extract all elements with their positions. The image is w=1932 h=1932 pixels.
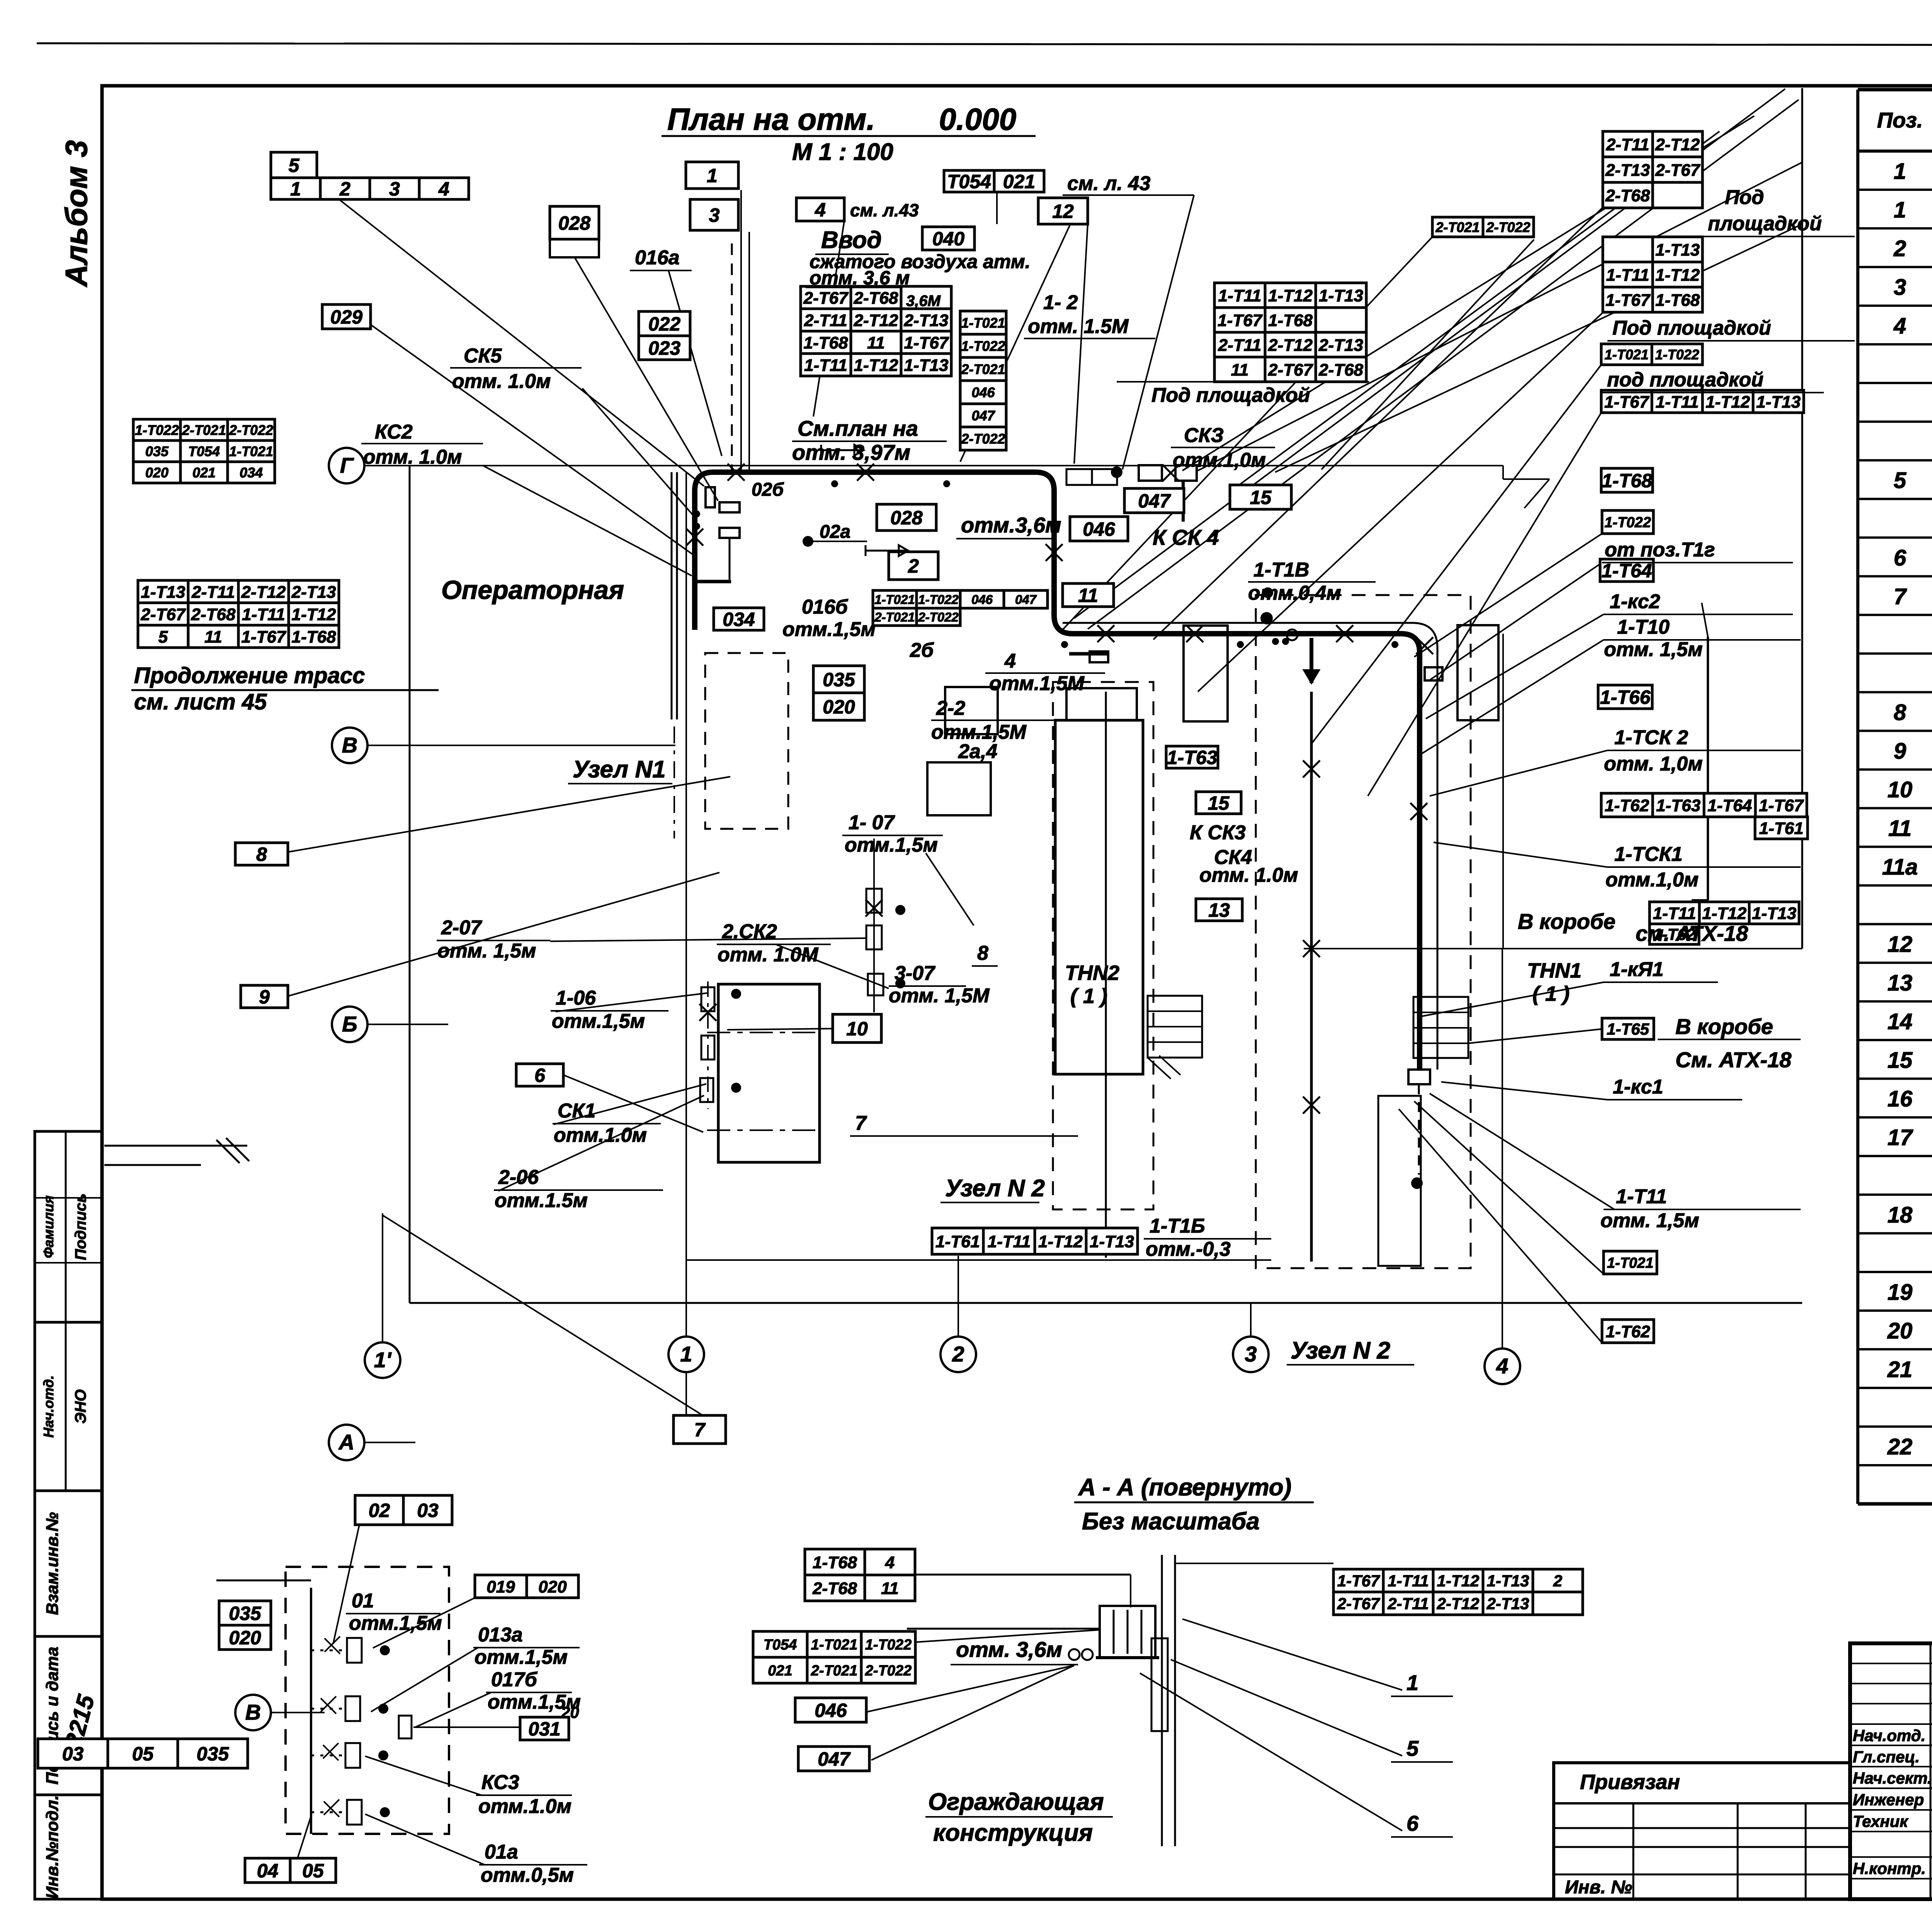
svg-text:2-Т021: 2-Т021 (811, 1663, 857, 1679)
svg-text:046: 046 (1083, 519, 1116, 540)
svg-text:11: 11 (1078, 585, 1098, 606)
svg-text:4: 4 (1004, 650, 1016, 672)
svg-text:2-Т68: 2-Т68 (191, 605, 236, 624)
svg-text:20: 20 (1887, 1318, 1913, 1344)
svg-text:1: 1 (1894, 159, 1906, 184)
svg-text:22: 22 (1887, 1434, 1913, 1459)
svg-text:отм. 3,6м: отм. 3,6м (956, 1637, 1062, 1662)
svg-text:отм. 1.0м: отм. 1.0м (452, 370, 551, 393)
svg-text:отм.1.5м: отм.1.5м (495, 1189, 588, 1212)
svg-text:11: 11 (204, 628, 222, 646)
svg-text:13: 13 (1208, 900, 1230, 921)
svg-text:Поз.: Поз. (1877, 108, 1923, 132)
svg-text:СК1: СК1 (558, 1100, 595, 1122)
svg-text:Взам.инв.№: Взам.инв.№ (43, 1512, 62, 1615)
svg-text:1: 1 (1894, 197, 1906, 223)
svg-text:1-Т022: 1-Т022 (1655, 347, 1699, 362)
svg-text:1-Т68: 1-Т68 (804, 333, 848, 352)
svg-text:2-Т11: 2-Т11 (804, 311, 847, 330)
svg-text:046: 046 (971, 592, 993, 607)
svg-text:М 1 : 100: М 1 : 100 (792, 139, 893, 165)
svg-text:1-Т68: 1-Т68 (1268, 311, 1313, 330)
svg-text:1-Т12: 1-Т12 (1702, 904, 1747, 923)
svg-text:1-Т12: 1-Т12 (1706, 393, 1750, 412)
svg-text:035: 035 (145, 443, 169, 459)
svg-text:2-06: 2-06 (498, 1166, 539, 1189)
svg-text:1-Т67: 1-Т67 (1337, 1572, 1380, 1590)
svg-text:1-Т021: 1-Т021 (1604, 347, 1648, 362)
svg-text:013а: 013а (478, 1624, 523, 1646)
svg-text:1-ТСК 2: 1-ТСК 2 (1614, 726, 1688, 749)
svg-text:10: 10 (846, 1018, 868, 1040)
svg-text:1-Т67: 1-Т67 (241, 628, 287, 646)
svg-text:1-Т63: 1-Т63 (1656, 796, 1701, 815)
svg-text:5: 5 (1894, 468, 1906, 493)
svg-text:2-Т11: 2-Т11 (191, 583, 235, 602)
svg-text:А - А (повернуто): А - А (повернуто) (1078, 1474, 1291, 1501)
svg-text:отм.1,5м: отм.1,5м (552, 1010, 645, 1032)
svg-text:1: 1 (1406, 1670, 1418, 1695)
svg-text:2-Т67: 2-Т67 (1268, 361, 1313, 379)
svg-text:1-Т65: 1-Т65 (1607, 1020, 1649, 1038)
svg-text:2-Т12: 2-Т12 (1655, 135, 1700, 154)
svg-text:Привязан: Привязан (1580, 1770, 1680, 1794)
svg-text:отм.1,5м: отм.1,5м (474, 1646, 568, 1668)
svg-text:01: 01 (352, 1590, 374, 1612)
svg-text:040: 040 (932, 228, 965, 250)
svg-text:отм.1,5м: отм.1,5м (845, 834, 938, 856)
svg-text:11а: 11а (1882, 855, 1918, 880)
svg-text:1-кс1: 1-кс1 (1613, 1076, 1663, 1098)
svg-text:см. лист 45: см. лист 45 (134, 689, 267, 714)
svg-text:2-Т022: 2-Т022 (961, 431, 1005, 447)
svg-text:Т054: Т054 (188, 443, 220, 459)
svg-text:2-Т022: 2-Т022 (918, 610, 959, 624)
svg-text:Нач.сект.: Нач.сект. (1853, 1769, 1932, 1787)
svg-text:1-Т62: 1-Т62 (1605, 796, 1649, 815)
svg-text:отм.1.0м: отм.1.0м (554, 1124, 647, 1146)
svg-text:2-Т67: 2-Т67 (1655, 161, 1701, 180)
svg-text:0.000: 0.000 (939, 102, 1016, 136)
svg-text:Гл.спец.: Гл.спец. (1853, 1748, 1920, 1766)
svg-text:035: 035 (197, 1743, 230, 1765)
svg-text:021: 021 (1003, 171, 1035, 192)
svg-text:2-2: 2-2 (936, 697, 965, 719)
svg-text:отм.1.0м: отм.1.0м (478, 1795, 571, 1818)
svg-text:Б: Б (342, 1012, 357, 1036)
svg-text:1-Т66: 1-Т66 (1600, 687, 1651, 708)
svg-text:отм.1,5м: отм.1,5м (782, 618, 876, 641)
svg-text:020: 020 (538, 1577, 567, 1596)
svg-text:1-Т11: 1-Т11 (1218, 286, 1262, 305)
svg-text:15: 15 (1888, 1048, 1913, 1073)
svg-text:035: 035 (229, 1603, 262, 1624)
svg-text:1-Т68: 1-Т68 (813, 1553, 857, 1572)
svg-text:Техник: Техник (1853, 1812, 1908, 1830)
svg-text:отм.-0,3: отм.-0,3 (1146, 1238, 1231, 1260)
svg-text:1-Т11: 1-Т11 (1388, 1572, 1429, 1590)
svg-text:Подпись: Подпись (72, 1194, 89, 1260)
svg-text:1-Т022: 1-Т022 (1604, 515, 1651, 531)
svg-text:ЭНО: ЭНО (72, 1389, 89, 1424)
svg-text:1-Т64: 1-Т64 (1708, 796, 1752, 815)
svg-text:2-Т022: 2-Т022 (1486, 219, 1530, 235)
svg-text:План на отм.: План на отм. (667, 102, 875, 136)
svg-text:14: 14 (1888, 1009, 1913, 1034)
svg-text:10: 10 (1888, 777, 1913, 802)
svg-text:4: 4 (1496, 1354, 1508, 1378)
svg-text:1-Т12: 1-Т12 (1038, 1232, 1083, 1251)
svg-text:1-Т12: 1-Т12 (1437, 1572, 1480, 1590)
svg-text:2-Т12: 2-Т12 (1437, 1595, 1480, 1613)
svg-text:Операторная: Операторная (441, 575, 624, 605)
svg-text:1-Т022: 1-Т022 (918, 592, 959, 607)
svg-text:8: 8 (1894, 700, 1906, 725)
svg-text:2-Т021: 2-Т021 (961, 361, 1005, 377)
svg-text:1-Т021: 1-Т021 (961, 315, 1005, 331)
svg-text:1-Т67: 1-Т67 (1218, 311, 1263, 330)
svg-text:19: 19 (1888, 1280, 1913, 1305)
svg-text:отм. 1.0М: отм. 1.0М (718, 944, 819, 966)
svg-text:Ограждающая: Ограждающая (928, 1789, 1104, 1815)
svg-text:6: 6 (1894, 545, 1906, 570)
svg-text:047: 047 (818, 1748, 851, 1770)
svg-text:1-Т11: 1-Т11 (242, 605, 285, 624)
svg-text:023: 023 (648, 337, 681, 359)
svg-text:Под площадкой: Под площадкой (1612, 317, 1771, 339)
svg-text:034: 034 (240, 464, 263, 480)
svg-text:3: 3 (1245, 1342, 1257, 1366)
svg-text:1-ТСК1: 1-ТСК1 (1614, 843, 1682, 866)
svg-text:047: 047 (1138, 490, 1171, 512)
svg-text:4: 4 (1893, 313, 1906, 338)
svg-text:2-Т11: 2-Т11 (1218, 336, 1262, 355)
svg-text:отм.1,0м: отм.1,0м (1173, 449, 1266, 471)
svg-text:2-Т12: 2-Т12 (854, 311, 898, 330)
svg-text:К СК3: К СК3 (1190, 821, 1246, 844)
svg-text:3,6М: 3,6М (906, 293, 941, 310)
svg-text:16: 16 (1888, 1087, 1913, 1112)
svg-text:см. АТХ-18: см. АТХ-18 (1636, 921, 1748, 946)
svg-text:отм. 3,97м: отм. 3,97м (792, 440, 910, 464)
svg-text:СК5: СК5 (464, 345, 502, 367)
svg-text:отм. 3,6 м: отм. 3,6 м (810, 267, 910, 289)
svg-text:3-07: 3-07 (895, 962, 935, 985)
svg-text:1-Т022: 1-Т022 (865, 1637, 912, 1653)
svg-text:отм. 1,5м: отм. 1,5м (437, 940, 536, 962)
svg-text:отм. 1.0м: отм. 1.0м (1199, 864, 1298, 886)
svg-text:1-Т11: 1-Т11 (1606, 265, 1650, 284)
svg-text:1-Т62: 1-Т62 (1606, 1322, 1650, 1341)
svg-text:1-Т10: 1-Т10 (1617, 616, 1670, 638)
svg-text:029: 029 (330, 306, 363, 328)
svg-text:1: 1 (680, 1342, 692, 1366)
svg-text:отм. 1,5м: отм. 1,5м (1600, 1209, 1699, 1232)
svg-text:1-Т12: 1-Т12 (854, 356, 898, 375)
svg-text:1-Т13: 1-Т13 (904, 356, 949, 375)
svg-text:КС3: КС3 (481, 1771, 519, 1794)
svg-text:Инв.№подл.: Инв.№подл. (43, 1795, 62, 1899)
svg-text:2: 2 (1893, 236, 1906, 261)
svg-text:028: 028 (890, 507, 923, 529)
svg-text:7: 7 (1894, 584, 1907, 609)
svg-text:см. л. 43: см. л. 43 (1067, 172, 1150, 195)
svg-text:1': 1' (374, 1347, 392, 1372)
svg-text:ТНN2: ТНN2 (1065, 961, 1119, 985)
svg-text:20: 20 (561, 1703, 579, 1721)
svg-text:1-Т1В: 1-Т1В (1253, 559, 1309, 581)
svg-text:2-Т022: 2-Т022 (229, 422, 273, 438)
svg-text:4: 4 (815, 199, 826, 221)
svg-text:1- 07: 1- 07 (849, 811, 895, 834)
svg-text:1- 2: 1- 2 (1043, 291, 1078, 314)
svg-text:отм.1,5м: отм.1,5м (349, 1612, 442, 1634)
svg-text:отм.0,4м: отм.0,4м (1248, 582, 1341, 604)
svg-text:046: 046 (815, 1700, 847, 1721)
svg-text:047: 047 (1015, 592, 1037, 607)
svg-text:019: 019 (486, 1577, 515, 1596)
svg-text:1-Т021: 1-Т021 (811, 1637, 857, 1653)
svg-text:1-06: 1-06 (556, 987, 596, 1009)
svg-text:1-Т13: 1-Т13 (1655, 240, 1700, 259)
svg-text:5: 5 (289, 155, 300, 176)
svg-text:Фамилия: Фамилия (41, 1196, 56, 1258)
svg-text:02б: 02б (752, 480, 784, 500)
svg-text:1-Т022: 1-Т022 (135, 422, 179, 438)
svg-text:1-кс2: 1-кс2 (1610, 590, 1660, 613)
svg-text:отм.1,0м: отм.1,0м (1605, 869, 1699, 891)
svg-text:2б: 2б (910, 639, 934, 662)
svg-text:2-Т12: 2-Т12 (241, 583, 286, 602)
svg-text:конструкция: конструкция (933, 1820, 1093, 1846)
svg-text:1-Т13: 1-Т13 (1752, 904, 1796, 923)
svg-text:3: 3 (709, 204, 720, 226)
svg-text:21: 21 (1887, 1357, 1913, 1382)
svg-text:11: 11 (1888, 816, 1912, 841)
svg-text:17: 17 (1888, 1125, 1913, 1150)
svg-text:2-Т68: 2-Т68 (1318, 361, 1363, 379)
svg-text:см. л.43: см. л.43 (850, 200, 919, 220)
svg-text:1-Т63: 1-Т63 (1167, 747, 1218, 769)
svg-text:034: 034 (723, 609, 755, 630)
svg-text:020: 020 (823, 696, 855, 718)
svg-text:К СК 4: К СК 4 (1153, 525, 1219, 549)
svg-text:1-Т11: 1-Т11 (988, 1232, 1031, 1251)
svg-text:1-Т11: 1-Т11 (1653, 904, 1696, 923)
svg-text:Инженер: Инженер (1853, 1791, 1924, 1809)
svg-text:13: 13 (1888, 971, 1913, 996)
svg-text:12: 12 (1888, 932, 1913, 957)
svg-text:1-Т68: 1-Т68 (292, 628, 336, 646)
svg-text:035: 035 (823, 669, 855, 690)
svg-text:046: 046 (971, 384, 995, 400)
svg-text:021: 021 (192, 464, 216, 480)
svg-text:Т054: Т054 (947, 171, 991, 192)
svg-text:5: 5 (1406, 1736, 1419, 1760)
svg-text:Инв. №: Инв. № (1565, 1877, 1632, 1898)
svg-text:Под: Под (1725, 186, 1764, 209)
svg-text:1-Т11: 1-Т11 (804, 356, 847, 375)
svg-text:047: 047 (971, 408, 995, 423)
svg-text:1-Т12: 1-Т12 (1268, 286, 1313, 305)
svg-text:022: 022 (648, 313, 681, 335)
svg-text:1-Т68: 1-Т68 (1602, 470, 1652, 492)
svg-text:КС2: КС2 (375, 421, 413, 443)
svg-text:2-Т68: 2-Т68 (854, 289, 898, 308)
svg-text:Т054: Т054 (764, 1637, 797, 1653)
svg-text:отм. 1,0м: отм. 1,0м (1604, 753, 1702, 775)
svg-text:Узел N1: Узел N1 (573, 756, 666, 783)
svg-text:2-Т022: 2-Т022 (865, 1663, 912, 1679)
svg-text:Альбом 3: Альбом 3 (59, 140, 94, 287)
svg-text:2-Т11: 2-Т11 (1387, 1595, 1429, 1613)
svg-text:1-Т13: 1-Т13 (1090, 1232, 1134, 1251)
svg-text:5: 5 (158, 628, 168, 646)
svg-text:2а,4: 2а,4 (958, 740, 997, 763)
svg-text:1-Т13: 1-Т13 (1319, 286, 1363, 305)
svg-text:1-кЯ1: 1-кЯ1 (1610, 958, 1663, 981)
svg-text:отм. 1.5М: отм. 1.5М (1028, 315, 1129, 338)
svg-text:В: В (245, 1700, 261, 1724)
svg-text:1: 1 (707, 165, 718, 187)
svg-text:2-Т13: 2-Т13 (1318, 336, 1363, 355)
svg-text:1-Т13: 1-Т13 (141, 583, 185, 602)
svg-text:2: 2 (908, 555, 919, 577)
svg-text:03: 03 (62, 1743, 84, 1765)
svg-text:2-Т68: 2-Т68 (812, 1579, 857, 1598)
svg-text:Нач.отд.: Нач.отд. (1853, 1726, 1925, 1745)
svg-text:ТНN1: ТНN1 (1527, 959, 1582, 982)
svg-text:2-Т67: 2-Т67 (803, 289, 849, 308)
svg-text:В коробе: В коробе (1518, 909, 1616, 934)
svg-text:031: 031 (528, 1718, 560, 1740)
svg-text:Узел N 2: Узел N 2 (1291, 1337, 1390, 1364)
svg-text:площадкой: площадкой (1708, 213, 1822, 235)
svg-text:отм.0,5м: отм.0,5м (481, 1864, 574, 1886)
svg-text:02а: 02а (820, 522, 850, 542)
svg-text:Г: Г (340, 453, 354, 477)
svg-text:2-Т67: 2-Т67 (1337, 1595, 1380, 1613)
svg-text:3: 3 (1894, 275, 1906, 300)
svg-text:6: 6 (1406, 1811, 1419, 1835)
svg-text:В: В (342, 733, 357, 757)
svg-text:05: 05 (302, 1860, 324, 1882)
svg-text:1-Т12: 1-Т12 (1655, 265, 1700, 284)
svg-text:2-Т12: 2-Т12 (1268, 336, 1313, 355)
svg-text:04: 04 (257, 1860, 279, 1882)
svg-text:отм. 1,5М: отм. 1,5М (889, 985, 990, 1007)
svg-text:1-Т67: 1-Т67 (904, 333, 949, 352)
svg-text:2-Т021: 2-Т021 (874, 610, 915, 624)
svg-text:7: 7 (694, 1419, 706, 1441)
svg-text:2: 2 (339, 178, 350, 200)
svg-text:3: 3 (389, 178, 400, 200)
svg-text:18: 18 (1888, 1202, 1913, 1228)
svg-text:1-Т11: 1-Т11 (1656, 393, 1699, 412)
svg-text:020: 020 (229, 1627, 261, 1649)
svg-text:1-Т021: 1-Т021 (1607, 1255, 1653, 1271)
svg-text:отм. 1,5м: отм. 1,5м (1604, 638, 1702, 661)
svg-text:1-Т67: 1-Т67 (1604, 393, 1650, 412)
svg-text:028: 028 (558, 213, 591, 234)
svg-text:отм.3,6м: отм.3,6м (961, 513, 1061, 537)
svg-text:См. АТХ-18: См. АТХ-18 (1675, 1048, 1792, 1072)
svg-text:Без масштаба: Без масштаба (1082, 1508, 1260, 1535)
svg-text:9: 9 (1894, 738, 1906, 764)
svg-text:2-Т13: 2-Т13 (1605, 161, 1650, 180)
svg-text:отм.1,5М: отм.1,5М (989, 672, 1085, 695)
svg-text:02: 02 (369, 1500, 390, 1521)
svg-text:2-Т13: 2-Т13 (1486, 1595, 1529, 1613)
svg-text:1-Т021: 1-Т021 (229, 443, 273, 459)
svg-text:( 1 ): ( 1 ) (1532, 982, 1570, 1005)
svg-text:В коробе: В коробе (1675, 1014, 1773, 1039)
svg-text:1-Т67: 1-Т67 (1759, 796, 1804, 815)
svg-text:016б: 016б (802, 596, 849, 618)
svg-text:11: 11 (1231, 361, 1249, 379)
svg-text:Под площадкой: Под площадкой (1151, 384, 1310, 406)
svg-text:016а: 016а (635, 247, 680, 269)
svg-text:Нач.отд.: Нач.отд. (41, 1375, 56, 1437)
svg-text:См.план на: См.план на (798, 416, 918, 440)
svg-text:СКЗ: СКЗ (1184, 424, 1224, 447)
svg-text:8: 8 (977, 942, 988, 964)
svg-text:11: 11 (881, 1579, 899, 1598)
svg-text:1-Т68: 1-Т68 (1655, 291, 1700, 310)
svg-text:11: 11 (867, 333, 885, 352)
svg-text:( 1 ): ( 1 ) (1070, 985, 1107, 1008)
svg-text:021: 021 (768, 1663, 792, 1679)
svg-text:017б: 017б (491, 1668, 538, 1691)
svg-text:2: 2 (1553, 1572, 1562, 1590)
svg-text:1-Т1Б: 1-Т1Б (1150, 1215, 1205, 1237)
svg-text:1-Т021: 1-Т021 (874, 592, 915, 607)
svg-text:020: 020 (145, 464, 168, 480)
svg-text:01а: 01а (485, 1841, 518, 1863)
svg-text:7: 7 (855, 1112, 867, 1134)
svg-text:15: 15 (1250, 487, 1272, 509)
svg-text:1-Т67: 1-Т67 (1605, 291, 1651, 310)
svg-text:8: 8 (256, 844, 267, 865)
svg-text:1-Т11: 1-Т11 (1616, 1185, 1667, 1208)
svg-text:6: 6 (534, 1065, 546, 1086)
svg-text:Н.контр.: Н.контр. (1853, 1859, 1926, 1878)
svg-text:2: 2 (952, 1342, 964, 1366)
svg-text:4: 4 (438, 178, 449, 200)
svg-text:Узел N 2: Узел N 2 (945, 1175, 1045, 1202)
svg-text:под площадкой: под площадкой (1607, 369, 1764, 391)
svg-text:отм. 1.0м: отм. 1.0м (363, 446, 462, 468)
svg-text:1-Т13: 1-Т13 (1487, 1572, 1529, 1590)
svg-text:03: 03 (417, 1500, 439, 1521)
svg-text:2-Т68: 2-Т68 (1605, 186, 1650, 205)
svg-text:4: 4 (885, 1553, 895, 1572)
svg-text:15: 15 (1208, 793, 1230, 814)
svg-text:1-Т61: 1-Т61 (935, 1232, 980, 1251)
svg-text:2-07: 2-07 (441, 917, 482, 939)
svg-text:2.СК2: 2.СК2 (722, 920, 777, 943)
svg-text:2-Т11: 2-Т11 (1606, 135, 1650, 154)
svg-text:Продолжение трасс: Продолжение трасс (134, 663, 365, 688)
svg-text:1-Т13: 1-Т13 (1756, 393, 1801, 412)
svg-text:2-Т13: 2-Т13 (904, 311, 949, 330)
svg-text:2-Т021: 2-Т021 (1435, 219, 1480, 235)
svg-text:1: 1 (290, 178, 301, 200)
svg-text:9: 9 (259, 986, 270, 1008)
svg-text:2-Т67: 2-Т67 (141, 605, 186, 624)
svg-text:1-Т022: 1-Т022 (961, 338, 1005, 354)
svg-text:1-Т61: 1-Т61 (1759, 819, 1804, 838)
